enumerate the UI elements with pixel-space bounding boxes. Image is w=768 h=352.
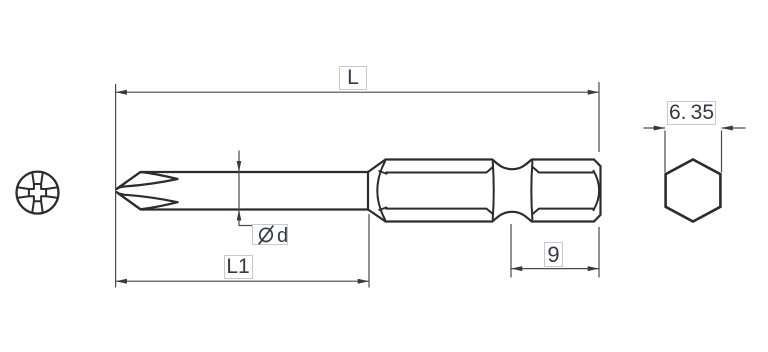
svg-text:d: d (277, 225, 287, 245)
